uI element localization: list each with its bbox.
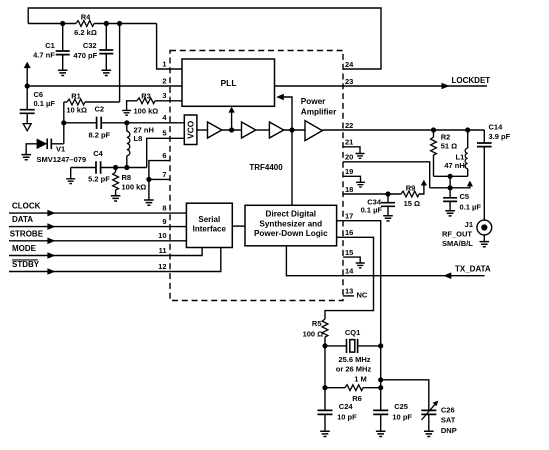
svg-text:SMA/B/L: SMA/B/L xyxy=(442,239,473,248)
resistor R3 xyxy=(127,101,137,111)
svg-text:L1: L1 xyxy=(456,152,465,161)
node R5 bottom xyxy=(322,343,327,348)
wire MODE xyxy=(9,248,202,256)
node R4 right junction xyxy=(104,21,109,26)
node R8 top xyxy=(113,165,118,170)
wire STROBE xyxy=(9,240,186,242)
svg-text:Power-Down Logic: Power-Down Logic xyxy=(254,229,328,238)
svg-text:TX_DATA: TX_DATA xyxy=(455,264,491,273)
node varactor control xyxy=(61,120,66,125)
resistor R9 xyxy=(401,191,419,197)
buffer amplifier 2 xyxy=(242,122,256,138)
wire pin 17 to crystal xyxy=(337,221,381,346)
wire PLL feedback with arrow xyxy=(231,113,233,131)
ground J1 xyxy=(480,242,490,247)
ground C24 xyxy=(320,431,330,436)
svg-text:20: 20 xyxy=(345,153,353,162)
svg-text:5.2 pF: 5.2 pF xyxy=(88,175,110,184)
svg-text:J1: J1 xyxy=(465,220,473,229)
wire pin 4 left segment xyxy=(64,122,97,124)
wire R4 junction down to R1 xyxy=(119,24,121,103)
wire LOCKDET xyxy=(275,85,488,87)
svg-text:470 pF: 470 pF xyxy=(73,51,97,60)
svg-text:7: 7 xyxy=(162,170,166,179)
svg-text:11: 11 xyxy=(159,246,167,255)
wire pin 5 xyxy=(147,138,185,167)
svg-text:R3: R3 xyxy=(141,92,151,101)
wire pin 19 to ground xyxy=(343,176,361,182)
wire pin 15 to ground xyxy=(343,257,360,263)
svg-text:16: 16 xyxy=(345,228,353,237)
svg-text:13: 13 xyxy=(345,287,353,296)
svg-text:Power: Power xyxy=(301,97,326,106)
svg-text:C24: C24 xyxy=(339,402,354,411)
power amplifier xyxy=(305,121,322,141)
svg-text:or 26 MHz: or 26 MHz xyxy=(336,365,372,374)
svg-text:6: 6 xyxy=(162,151,166,160)
svg-text:8: 8 xyxy=(162,204,166,213)
capacitor C2 xyxy=(97,117,102,129)
svg-text:1: 1 xyxy=(162,59,166,68)
svg-text:18: 18 xyxy=(345,185,353,194)
svg-text:C14: C14 xyxy=(489,123,504,132)
DDS block xyxy=(245,205,337,246)
wire DATA xyxy=(9,226,186,228)
wire pin 16 to crystal xyxy=(325,237,374,319)
node C6 xyxy=(25,83,30,88)
svg-text:Direct Digital: Direct Digital xyxy=(266,210,317,219)
resistor R8 xyxy=(115,168,117,173)
node R6 right xyxy=(378,385,383,390)
svg-text:12: 12 xyxy=(158,262,166,271)
wire pin 7 xyxy=(149,178,171,180)
svg-text:L8: L8 xyxy=(134,134,143,143)
node C34 xyxy=(385,191,390,196)
node PLL feedback tap xyxy=(229,127,234,132)
svg-text:24: 24 xyxy=(345,60,354,69)
resistor R4 xyxy=(28,23,76,25)
svg-text:3: 3 xyxy=(162,91,166,100)
svg-text:100 kΩ: 100 kΩ xyxy=(134,107,159,116)
svg-text:C26: C26 xyxy=(441,405,455,414)
crystal CQ1 xyxy=(325,345,347,347)
node R4 to R1 junction xyxy=(117,21,122,26)
svg-text:LOCKDET: LOCKDET xyxy=(452,76,491,85)
svg-text:10 pF: 10 pF xyxy=(392,412,412,421)
wire pin 20 rail with arrow xyxy=(430,186,470,188)
ground R8 xyxy=(111,196,121,201)
buffer amplifier 3 xyxy=(269,122,283,138)
svg-text:21: 21 xyxy=(345,138,353,147)
svg-text:51 Ω: 51 Ω xyxy=(441,141,457,150)
connector J1 xyxy=(477,220,492,235)
wire C26 branch xyxy=(381,380,429,410)
ground R3 xyxy=(122,110,131,115)
node L8 bottom xyxy=(124,165,129,170)
capacitor C32 xyxy=(105,24,107,51)
ground C32 xyxy=(102,70,112,75)
ground C26 xyxy=(424,431,434,436)
svg-text:MODE: MODE xyxy=(12,244,37,253)
svg-text:0.1 µF: 0.1 µF xyxy=(460,202,482,211)
svg-text:Synthesizer and: Synthesizer and xyxy=(259,219,322,228)
svg-text:6.2 kΩ: 6.2 kΩ xyxy=(74,28,97,37)
svg-text:R4: R4 xyxy=(81,13,91,22)
node R4 left junction xyxy=(60,21,65,26)
svg-text:1 M: 1 M xyxy=(354,374,367,383)
svg-text:V1: V1 xyxy=(56,145,65,154)
analog ground under C6 xyxy=(23,124,31,131)
wire pin 4 right segment xyxy=(101,122,184,124)
ground C5 xyxy=(445,211,455,216)
svg-text:10 pF: 10 pF xyxy=(337,412,357,421)
svg-text:100 kΩ: 100 kΩ xyxy=(122,183,147,192)
buffer amplifier 1 xyxy=(208,122,222,138)
svg-text:2: 2 xyxy=(162,76,166,85)
svg-text:4.7 nF: 4.7 nF xyxy=(33,51,55,60)
capacitor C25 xyxy=(380,388,382,411)
svg-text:VCO: VCO xyxy=(185,120,195,139)
svg-text:0.1 µF: 0.1 µF xyxy=(34,99,56,108)
svg-text:9: 9 xyxy=(162,217,166,226)
svg-text:C32: C32 xyxy=(83,41,97,50)
node C5 top xyxy=(448,185,453,190)
capacitor C14 xyxy=(483,130,485,143)
wire STDBY xyxy=(9,248,221,272)
svg-text:C1: C1 xyxy=(45,41,55,50)
ground V1 xyxy=(21,155,31,160)
svg-text:100 Ω: 100 Ω xyxy=(303,329,324,338)
svg-text:C4: C4 xyxy=(93,149,103,158)
node pins 6-7 xyxy=(146,177,151,182)
ground C34 xyxy=(383,216,393,221)
svg-text:3.9 pF: 3.9 pF xyxy=(489,132,511,141)
svg-text:10 kΩ: 10 kΩ xyxy=(66,105,87,114)
node L1 top xyxy=(465,127,470,132)
svg-text:STROBE: STROBE xyxy=(10,229,44,238)
svg-text:C6: C6 xyxy=(34,90,44,99)
wire TX_DATA from DDS pin 14 xyxy=(286,246,484,276)
wire crystal right leg xyxy=(380,346,382,388)
capacitor C34 xyxy=(387,194,389,203)
TRF4400 dashed boundary xyxy=(170,51,343,301)
resistor R1 xyxy=(64,101,67,103)
resistor R2 xyxy=(433,130,435,137)
node crystal right xyxy=(378,343,383,348)
svg-text:17: 17 xyxy=(345,212,353,221)
svg-text:25.6 MHz: 25.6 MHz xyxy=(338,355,370,364)
wire pin 2 xyxy=(27,85,182,87)
wire pin 13 NC stub xyxy=(343,295,354,297)
svg-text:22: 22 xyxy=(345,121,353,130)
VCO block xyxy=(184,115,197,145)
wire pin 22 RF output xyxy=(322,129,484,131)
svg-text:19: 19 xyxy=(345,167,353,176)
node DDS on RF line xyxy=(289,127,294,132)
inductor L8 xyxy=(126,123,128,132)
wire crystal left leg xyxy=(324,346,326,388)
ground C1 xyxy=(58,70,68,75)
ground pin 19 xyxy=(356,182,365,187)
varactor diode V1 xyxy=(26,144,36,155)
svg-text:DATA: DATA xyxy=(12,215,33,224)
capacitor C4 xyxy=(70,168,72,179)
svg-text:CQ1: CQ1 xyxy=(345,328,360,337)
wire R2-L1 bottom rail xyxy=(434,175,468,177)
svg-text:SAT: SAT xyxy=(441,415,456,424)
wire pin 6 xyxy=(149,161,171,180)
wire CLOCK xyxy=(9,212,186,214)
svg-text:23: 23 xyxy=(345,77,353,86)
wire buffer 1 to buffer 2 xyxy=(222,129,242,131)
svg-text:15: 15 xyxy=(345,248,353,257)
variable capacitor C26 xyxy=(421,410,436,414)
op-amp PLL block xyxy=(182,59,275,106)
svg-text:SMV1247–079: SMV1247–079 xyxy=(37,155,87,164)
capacitor C24 xyxy=(324,388,326,411)
svg-text:R1: R1 xyxy=(71,91,81,100)
wire buffer 2 to buffer 3 xyxy=(256,129,270,131)
ground C25 xyxy=(376,431,386,436)
ground pins 6-7 xyxy=(144,200,154,205)
svg-text:8.2 pF: 8.2 pF xyxy=(88,130,110,139)
svg-text:C25: C25 xyxy=(394,402,408,411)
wire pins 6-7 to ground xyxy=(148,179,150,200)
svg-text:10: 10 xyxy=(158,231,166,240)
svg-text:RF_OUT: RF_OUT xyxy=(442,230,472,239)
wire VCO to buffer 1 xyxy=(197,129,208,131)
svg-text:C5: C5 xyxy=(460,192,470,201)
svg-text:Interface: Interface xyxy=(193,225,227,234)
svg-text:R2: R2 xyxy=(441,133,451,142)
wire DDS to PLL with arrow xyxy=(282,97,292,206)
svg-text:R8: R8 xyxy=(122,173,132,182)
ground pin 21 xyxy=(356,154,365,159)
svg-text:STDBY: STDBY xyxy=(12,260,40,269)
svg-text:R9: R9 xyxy=(406,184,416,193)
wire C5 tap xyxy=(449,176,451,188)
node L8 top xyxy=(124,120,129,125)
svg-text:14: 14 xyxy=(345,267,354,276)
inductor L1 xyxy=(467,130,469,148)
ground C4 xyxy=(66,179,75,184)
svg-text:15 Ω: 15 Ω xyxy=(404,199,420,208)
Serial Interface block xyxy=(186,203,232,247)
wire pin 1 from R4 rail xyxy=(157,24,182,70)
svg-text:NC: NC xyxy=(357,291,368,300)
wire pin 18 xyxy=(343,193,401,195)
wire buffer 3 to PA xyxy=(284,129,305,131)
capacitor C6 xyxy=(26,86,28,110)
node C26 branch xyxy=(378,377,383,382)
capacitor C1 xyxy=(62,24,64,52)
svg-text:CLOCK: CLOCK xyxy=(12,202,41,211)
power arrow to VCC rail xyxy=(24,62,31,69)
wire pin 21 to ground xyxy=(343,147,360,154)
svg-text:47 nH: 47 nH xyxy=(444,161,464,170)
wire Serial to DDS xyxy=(232,225,245,227)
svg-text:Amplifier: Amplifier xyxy=(301,108,337,117)
svg-text:5: 5 xyxy=(162,129,166,138)
node R6 left xyxy=(322,385,327,390)
node R2-L1 rail xyxy=(448,174,453,179)
svg-text:PLL: PLL xyxy=(220,78,236,88)
node R2 top xyxy=(431,127,436,132)
svg-text:R5: R5 xyxy=(312,319,322,328)
svg-text:DNP: DNP xyxy=(441,426,457,435)
resistor R5 xyxy=(322,319,328,337)
svg-text:TRF4400: TRF4400 xyxy=(249,163,283,172)
capacitor C5 xyxy=(449,188,451,198)
ground pin 15 xyxy=(356,263,365,268)
wire pin 20 xyxy=(343,162,430,188)
wire VCC top rail to pin 24 xyxy=(28,8,381,69)
svg-text:R6: R6 xyxy=(352,394,362,403)
resistor R6 xyxy=(325,387,345,389)
svg-text:Serial: Serial xyxy=(198,215,220,224)
svg-text:0.1 µF: 0.1 µF xyxy=(361,205,383,214)
svg-text:C2: C2 xyxy=(95,105,105,114)
